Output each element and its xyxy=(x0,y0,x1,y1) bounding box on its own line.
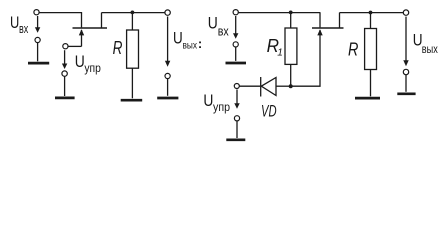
transistor VT (left): channel bar xyxy=(73,27,108,29)
terminal: left U_vx bottom xyxy=(35,37,40,42)
junction: top of R1 xyxy=(289,11,293,15)
svg-text:U: U xyxy=(75,52,85,71)
transistor VT (right): channel bar xyxy=(312,27,344,29)
svg-text:вх: вх xyxy=(19,21,29,36)
ground: left input xyxy=(28,43,49,63)
ground: under R (right) xyxy=(355,97,380,100)
label U_upr (right) xyxy=(203,91,230,114)
svg-text:U: U xyxy=(203,91,213,110)
ground: right output xyxy=(397,75,415,94)
wire: rail to R top xyxy=(131,13,133,30)
transistor VT (left): drain lead xyxy=(101,13,103,28)
svg-text:U: U xyxy=(10,13,19,32)
ground: under R (left) xyxy=(121,99,143,102)
wire: rail to R top (right) xyxy=(370,13,372,29)
terminal: right U_vx bottom xyxy=(233,42,238,47)
wire: R bottom to ground (right) xyxy=(370,70,372,97)
wire: rail to R1 top xyxy=(290,13,292,28)
svg-text:вых: вых xyxy=(422,42,438,56)
wire: VT2 drain to right output rail xyxy=(340,12,404,14)
terminal: left output bottom xyxy=(165,73,170,78)
svg-text:1: 1 xyxy=(277,48,283,59)
svg-text:R: R xyxy=(113,38,123,58)
transistor VT (right): drain lead xyxy=(339,13,341,28)
svg-text:U: U xyxy=(173,29,183,48)
arrow: right U_upr direction (down) xyxy=(234,90,239,109)
transistor VT (right): gate lead down and left to junction xyxy=(291,30,320,86)
wire: VT drain to left output rail xyxy=(102,12,166,14)
arrow: U_upr direction (left, down) xyxy=(62,50,67,69)
wire: gate to control terminal xyxy=(68,45,82,47)
svg-text:вх: вх xyxy=(218,24,229,39)
arrow: U_vyh direction (left, down) xyxy=(165,17,170,67)
resistor R1 xyxy=(285,28,297,64)
wire: R1 bottom to gate junction xyxy=(290,64,292,86)
svg-text:U: U xyxy=(208,14,218,33)
svg-text::: : xyxy=(198,36,202,51)
label U_vx (right input voltage) xyxy=(208,14,229,39)
ground: left output xyxy=(157,79,178,98)
transistor VT (left): gate lead down xyxy=(81,30,83,46)
terminal: right U_upr xyxy=(234,84,239,89)
junction: gate / R1 / diode node xyxy=(289,84,293,88)
transistor VT (left): source lead vertical xyxy=(81,13,83,28)
junction: top of resistor R (right) xyxy=(369,11,373,15)
terminal: left gate control xyxy=(63,44,68,49)
terminal: right output top xyxy=(403,10,408,15)
wire: left input rail (U_vx terminal to VT source) xyxy=(39,12,82,14)
arrow: right U_vx direction (down) xyxy=(233,16,238,39)
terminal: left output top xyxy=(165,10,170,15)
transistor VT (right): source lead vertical xyxy=(319,13,321,28)
label U_upr (left) xyxy=(75,52,101,75)
arrow: U_vyh direction (right, down) xyxy=(403,17,408,67)
wire: U_upr terminal to diode cathode xyxy=(239,85,260,87)
terminal: right U_vx top xyxy=(233,10,238,15)
terminal: left U_vx top xyxy=(34,10,39,15)
wire: diode anode to junction xyxy=(276,85,291,87)
diode VD: triangle (anode right, pointing left) xyxy=(261,78,276,96)
wire: right input rail (terminal to VT2 source) xyxy=(238,12,320,14)
wire: R bottom to ground xyxy=(131,68,133,98)
ground: right control xyxy=(226,121,245,140)
label R1 xyxy=(267,36,283,59)
terminal: right U_upr bottom xyxy=(234,116,239,121)
label U_vyh (right) xyxy=(413,31,438,56)
terminal: left U_upr bottom xyxy=(62,71,67,76)
transistor VT (right): gate arrow (points up at channel) xyxy=(317,29,322,35)
ground: left control xyxy=(55,76,75,98)
terminal: right output bottom xyxy=(403,69,408,74)
resistor R (left) xyxy=(127,30,139,68)
ground: right input xyxy=(226,47,247,63)
svg-text:упр: упр xyxy=(84,61,101,75)
label U_vx (left input voltage) xyxy=(10,13,29,36)
svg-text:вых: вых xyxy=(183,40,198,52)
svg-text:VD: VD xyxy=(261,101,277,120)
svg-text:R: R xyxy=(348,39,358,59)
arrow: U_vx direction (down) xyxy=(35,16,40,33)
svg-text:упр: упр xyxy=(213,100,230,114)
diode VD: cathode bar xyxy=(260,77,262,97)
resistor R (right) xyxy=(365,29,377,70)
junction: top of resistor R (left) xyxy=(131,11,135,15)
transistor VT (left): gate arrow (points up at channel) xyxy=(79,29,84,35)
label U_vyh (left) with colon xyxy=(173,29,202,52)
